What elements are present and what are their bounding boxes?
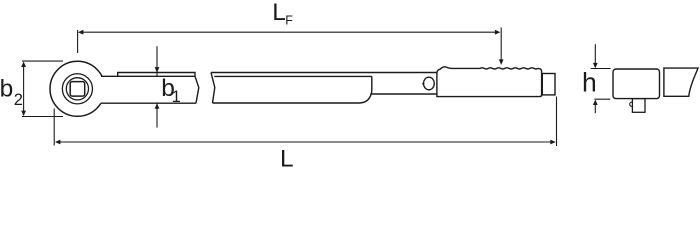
svg-text:L: L [272, 0, 286, 26]
svg-text:b: b [0, 76, 13, 103]
svg-text:F: F [285, 14, 293, 28]
svg-text:h: h [582, 67, 597, 97]
svg-text:1: 1 [172, 88, 181, 106]
svg-text:L: L [280, 146, 294, 172]
svg-text:2: 2 [14, 91, 23, 109]
